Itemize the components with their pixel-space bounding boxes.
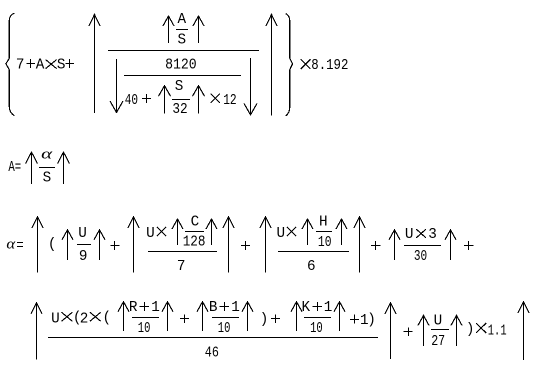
svg-text:C: C — [191, 215, 200, 231]
svg-text:R: R — [129, 300, 138, 316]
svg-text:128: 128 — [183, 235, 206, 251]
svg-text:1: 1 — [151, 300, 160, 316]
svg-text:40: 40 — [125, 93, 138, 109]
svg-text:9: 9 — [79, 249, 88, 265]
svg-text:8.192: 8.192 — [311, 58, 348, 74]
svg-text:1: 1 — [231, 300, 240, 316]
svg-text:12: 12 — [223, 93, 237, 109]
svg-text:10: 10 — [218, 321, 231, 337]
svg-text:U: U — [405, 227, 414, 243]
svg-text:U: U — [51, 311, 60, 327]
svg-text:U: U — [78, 226, 87, 242]
svg-text:K: K — [302, 300, 311, 316]
svg-text:2: 2 — [80, 311, 89, 327]
svg-text:1: 1 — [324, 300, 333, 316]
svg-text:U: U — [146, 226, 155, 242]
svg-text:H: H — [319, 214, 328, 230]
svg-text:S: S — [43, 171, 52, 187]
svg-text:6: 6 — [307, 259, 316, 275]
svg-text:S: S — [175, 79, 184, 95]
svg-text:α: α — [41, 146, 54, 162]
svg-text:A=: A= — [8, 160, 21, 176]
svg-text:): ) — [367, 312, 376, 328]
svg-text:7: 7 — [177, 259, 186, 275]
svg-text:U: U — [434, 314, 443, 330]
svg-text:27: 27 — [431, 334, 445, 350]
svg-text:3: 3 — [428, 227, 437, 243]
svg-text:1.1: 1.1 — [488, 323, 507, 339]
svg-text:46: 46 — [205, 345, 219, 361]
svg-text:10: 10 — [310, 321, 323, 337]
svg-text:10: 10 — [138, 321, 151, 337]
svg-text:(: ( — [103, 311, 112, 327]
svg-text:A: A — [178, 12, 187, 28]
svg-text:): ) — [260, 312, 269, 328]
svg-text:U: U — [277, 226, 286, 242]
svg-text:): ) — [466, 322, 475, 338]
svg-text:B: B — [209, 300, 218, 316]
svg-text:S: S — [178, 32, 187, 48]
svg-text:A: A — [36, 58, 45, 74]
svg-text:32: 32 — [172, 102, 187, 118]
svg-text:8120: 8120 — [165, 58, 197, 74]
svg-text:10: 10 — [318, 235, 332, 251]
svg-text:α: α — [6, 236, 16, 252]
svg-text:(: ( — [48, 237, 57, 253]
svg-text:7: 7 — [16, 58, 25, 74]
svg-text:30: 30 — [414, 249, 427, 265]
svg-text:S: S — [57, 58, 66, 74]
